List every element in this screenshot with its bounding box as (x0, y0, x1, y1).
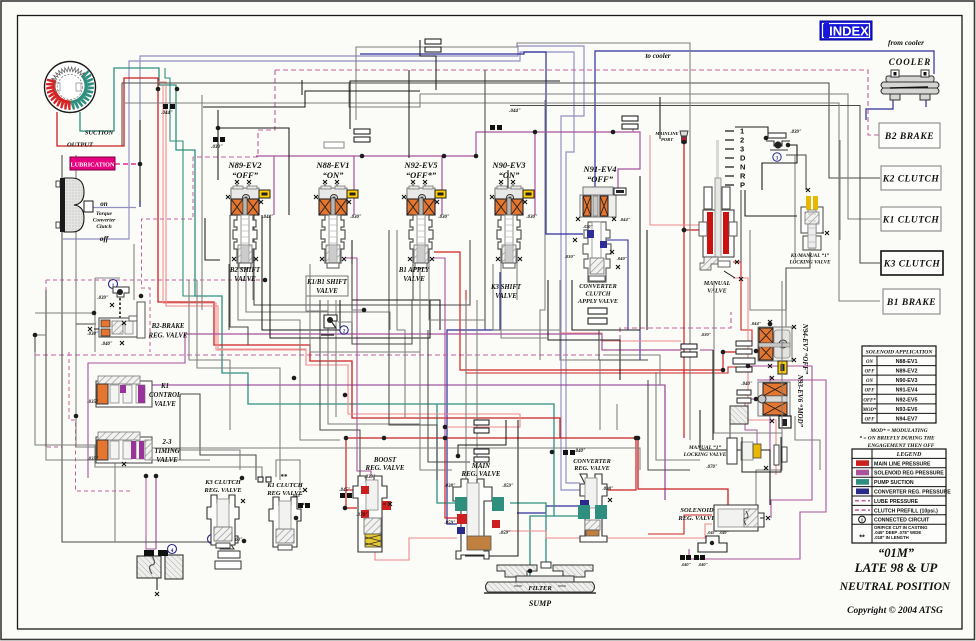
svg-text:REG. VALVE: REG. VALVE (461, 471, 501, 478)
svg-text:.044": .044" (161, 111, 173, 116)
connector (347, 190, 358, 198)
wire conv reg vertical (447, 272, 500, 430)
svg-text:CONVERTER REG. PRESSURE: CONVERTER REG. PRESSURE (874, 490, 951, 496)
node (634, 436, 639, 441)
wire black mesh 13 (712, 350, 714, 440)
box K3 CLUTCH (881, 251, 943, 275)
node (754, 349, 759, 354)
wire conv reg to main valve (447, 430, 457, 524)
svg-text:N89-EV2: N89-EV2 (896, 369, 918, 375)
svg-text:SOLENOID REG PRESSURE: SOLENOID REG PRESSURE (874, 471, 944, 477)
wire conv reg bottom (517, 506, 578, 513)
svg-text:NEUTRAL POSITION: NEUTRAL POSITION (839, 581, 951, 593)
node (360, 154, 365, 159)
svg-text:SOLENOID: SOLENOID (680, 507, 714, 514)
svg-text:.030": .030" (211, 145, 223, 150)
svg-text:FILTER: FILTER (528, 585, 552, 592)
wire boost stub (346, 489, 357, 491)
node (263, 278, 268, 283)
wire suction to main reg (437, 404, 457, 503)
solenoid N89-EV2 (226, 160, 274, 268)
K1/manual 1 locking valve (801, 188, 829, 250)
wire mainline port to manual valve (684, 142, 704, 230)
node (382, 436, 387, 441)
solenoid N91-EV4 (565, 164, 631, 282)
svg-text:B1 APPLY: B1 APPLY (398, 267, 430, 274)
wire sol reg bus (256, 132, 640, 190)
solenoid reg valve (677, 505, 770, 535)
wire boost out (375, 538, 457, 560)
svg-text:B2 BRAKE: B2 BRAKE (884, 132, 934, 142)
manual 1 locking valve bottom (683, 438, 787, 470)
node (682, 228, 687, 233)
svg-text:LATE 98 & UP: LATE 98 & UP (854, 560, 939, 575)
wire gray mesh 16 (189, 280, 230, 430)
wire gray mesh 0 (122, 83, 880, 178)
wire to check 4b (146, 476, 156, 549)
wire mauve long mid (185, 334, 681, 350)
svg-text:MAINLINE: MAINLINE (654, 131, 678, 136)
svg-text:APPLY VALVE: APPLY VALVE (577, 298, 618, 305)
svg-text:* = ON BRIEFLY DURING THE: * = ON BRIEFLY DURING THE (859, 435, 935, 442)
wire black mesh 8 (548, 280, 620, 380)
wire salmon to N94 (560, 333, 681, 341)
svg-text:.039": .039" (97, 296, 108, 301)
wire salmon twin (158, 82, 520, 438)
node (139, 294, 144, 299)
wire lube staircase (193, 70, 275, 157)
wire mesh extra (516, 264, 518, 300)
svg-text:**: ** (281, 473, 289, 481)
node (362, 308, 367, 313)
svg-text:“OFF”: “OFF” (587, 174, 614, 184)
valve B2-BRAKE REG VALVE (88, 278, 145, 347)
solenoid N93-EV6 (741, 374, 804, 428)
svg-text:CLUTCH: CLUTCH (585, 291, 610, 298)
svg-text:MAIN LINE PRESSURE: MAIN LINE PRESSURE (874, 461, 931, 467)
node (242, 539, 247, 544)
svg-text:“OFF”: “OFF” (232, 170, 259, 180)
wire gray mesh 34 (750, 230, 786, 360)
node (768, 322, 773, 327)
wire N88 down (345, 258, 371, 477)
rect pairs above main reg valve (474, 420, 489, 425)
wire stub N90 (534, 132, 536, 215)
wire sol reg red out (648, 515, 712, 534)
wire mesh extra (729, 424, 731, 438)
svg-text:.039": .039" (790, 130, 801, 135)
svg-text:CLUTCH PREFILL (10psi.): CLUTCH PREFILL (10psi.) (874, 508, 938, 514)
wire black mesh 17 (408, 70, 410, 158)
check valve item 3b (208, 535, 247, 570)
svg-text:OFF: OFF (865, 389, 876, 394)
svg-text:K1: K1 (160, 383, 169, 390)
box B2 BRAKE (879, 123, 940, 148)
wire nav branch (605, 240, 640, 360)
main reg valve (444, 463, 513, 559)
svg-text:**: ** (859, 535, 865, 542)
wire mesh extra (493, 264, 560, 330)
wire black mesh 9 (572, 280, 640, 330)
node (343, 393, 348, 398)
svg-text:.044": .044" (262, 215, 273, 220)
svg-text:LEGEND: LEGEND (896, 452, 922, 458)
orifice rect pair N94 (681, 344, 697, 349)
node (138, 162, 143, 167)
wire locking valve down (786, 252, 810, 366)
wire mesh extra (276, 460, 300, 490)
wire mauve stub N94 (700, 349, 713, 351)
wire gray mesh 41 (839, 140, 841, 240)
wire black mesh 3 (270, 215, 430, 338)
wire gray mesh 14 (246, 215, 390, 330)
wire gray mesh 38 (299, 355, 301, 430)
valve K1 (96, 376, 152, 407)
svg-text:N93-EV6: N93-EV6 (896, 407, 918, 413)
wire lube from lubrication box (115, 163, 140, 165)
wire suction from main reg right (510, 503, 546, 562)
orifice rects 625 (622, 116, 638, 121)
wire gray mesh 40 (46, 447, 210, 460)
wire gray mesh 20 (335, 300, 337, 417)
svg-text:VALVE: VALVE (154, 401, 176, 408)
valve K3 CLUTCH REG. VALVE (207, 495, 239, 548)
svg-text:.070": .070" (706, 465, 717, 470)
svg-text:.020": .020" (583, 224, 593, 229)
svg-text:.040": .040" (681, 562, 692, 567)
wire mesh extra (252, 264, 254, 300)
svg-text:PORT: PORT (661, 137, 673, 142)
node (636, 436, 641, 441)
svg-text:N: N (740, 163, 745, 172)
wire prefill 2 (46, 279, 265, 281)
wire to N93 down (769, 376, 771, 505)
node (294, 516, 299, 521)
svg-text:.045": .045" (339, 488, 350, 493)
svg-text:.038": .038" (444, 484, 455, 489)
wire gray mesh 11 (133, 244, 135, 300)
wire black mesh 6 (458, 420, 506, 456)
wire stub N88 (353, 156, 355, 215)
svg-text:OFF: OFF (865, 370, 876, 375)
svg-text:VALVE: VALVE (234, 276, 256, 283)
wire item2 out (338, 310, 364, 322)
node (74, 414, 79, 419)
node (442, 154, 447, 159)
svg-text:Torque: Torque (96, 211, 113, 217)
svg-text:LOCKING VALVE: LOCKING VALVE (683, 452, 727, 458)
svg-text:“01M”: “01M” (878, 546, 915, 560)
svg-text:N91-EV4: N91-EV4 (582, 164, 616, 174)
wire black mesh 2 (262, 215, 340, 330)
wire suction filter link (530, 516, 554, 583)
svg-text:.044": .044" (620, 217, 631, 222)
accumulator rects (588, 308, 607, 314)
wire salmon twin2 (163, 85, 306, 350)
svg-text:.040": .040" (741, 382, 752, 387)
wire mesh extra (210, 467, 262, 477)
wire mesh extra (115, 448, 640, 470)
solenoid N90-EV3 (490, 160, 538, 268)
solenoid N88-EV1 (314, 160, 362, 268)
svg-text:.030": .030" (438, 215, 449, 220)
node (721, 368, 726, 373)
node (240, 476, 245, 481)
svg-text:REG. VALVE: REG. VALVE (573, 465, 609, 472)
K1/B1 label box (306, 276, 348, 296)
svg-text:on: on (100, 200, 108, 208)
node (175, 87, 180, 92)
node (216, 126, 221, 131)
wire to cooler line (595, 51, 934, 190)
node (611, 130, 616, 135)
wire gray mesh 12 (230, 215, 248, 345)
node (292, 376, 297, 381)
svg-text:TIMING: TIMING (154, 448, 179, 455)
svg-text:4: 4 (171, 548, 174, 554)
wire manual valve feed down (683, 230, 685, 438)
wire suction twin (165, 68, 195, 296)
wire gray mesh 27 (484, 70, 486, 330)
svg-text:CONVERTER: CONVERTER (579, 283, 616, 290)
svg-text:.044": .044" (509, 109, 521, 114)
wire main out right (505, 524, 712, 538)
wire gray mesh 17 (197, 280, 280, 480)
small rect pairs top (324, 142, 344, 148)
wire black mesh 7 (507, 170, 509, 215)
wire manual to right (733, 278, 776, 475)
wire salmon N91 to manual (650, 135, 699, 225)
wire gray mesh 23 (420, 330, 452, 470)
svg-text:.040": .040" (101, 342, 112, 347)
svg-text:MOD* = MODULATING: MOD* = MODULATING (869, 427, 927, 434)
wire purple long mid (146, 385, 665, 500)
wire to locking valve (745, 190, 797, 216)
svg-text:SOLENOID APPLICATION: SOLENOID APPLICATION (866, 350, 934, 356)
wire black mesh 0 (218, 110, 289, 215)
wire black mesh 16 (350, 81, 560, 129)
node (92, 311, 97, 316)
wire enclosure locking valve (742, 437, 781, 472)
orifice (298, 503, 310, 508)
wire black mesh 19 (420, 40, 436, 90)
wire N94 stub (466, 290, 737, 373)
wire to N94 area (434, 252, 737, 370)
valve 2-3 (96, 432, 152, 463)
wire gray mesh 5 (356, 43, 690, 120)
wire black mesh 14 (205, 218, 220, 260)
svg-text:K1 CLUTCH: K1 CLUTCH (266, 482, 304, 489)
wire gray mesh 28 (540, 100, 545, 360)
svg-text:.045": .045" (292, 493, 303, 498)
cooler (881, 57, 939, 100)
svg-text:REG. VALVE: REG. VALVE (148, 333, 188, 340)
node (710, 541, 714, 545)
wire mesh extra (76, 323, 96, 325)
wire suction main (80, 68, 578, 516)
pump gear (45, 62, 96, 113)
svg-text:REG. VALVE: REG. VALVE (365, 465, 405, 472)
wire black mesh 20 (659, 97, 661, 139)
wire black mesh 12 (700, 410, 770, 505)
solenoid N94-EV7 (751, 320, 809, 375)
connector (435, 190, 446, 198)
wire N93 mauve down (689, 380, 826, 559)
svg-text:OUTPUT: OUTPUT (67, 142, 94, 149)
svg-text:B2-BRAKE: B2-BRAKE (151, 323, 185, 330)
wire N94 mauve down (747, 366, 812, 518)
svg-text:“ON”: “ON” (323, 170, 345, 180)
wire gray mesh 37 (869, 345, 871, 404)
svg-text:CONVERTER: CONVERTER (573, 458, 610, 465)
svg-text:CONNECTED CIRCUIT: CONNECTED CIRCUIT (874, 518, 930, 524)
wire item3 out (762, 145, 797, 190)
svg-text:B2 SHIFT: B2 SHIFT (229, 267, 261, 274)
solenoid application table (862, 346, 936, 423)
svg-text:.035": .035" (87, 400, 98, 405)
box B1 BRAKE (883, 289, 940, 314)
svg-text:1: 1 (740, 127, 744, 136)
wire main line bus (346, 438, 728, 507)
svg-text:Converter: Converter (93, 218, 116, 224)
node (144, 474, 149, 479)
wire mesh extra (35, 312, 94, 314)
svg-text:N88-EV1: N88-EV1 (315, 160, 349, 170)
svg-text:from cooler: from cooler (888, 38, 924, 47)
wire gray mesh 24 (428, 330, 470, 462)
wire gray mesh 3 (510, 106, 880, 264)
wire cooler left pipe down (866, 100, 893, 120)
svg-text:.018" IN LENGTH: .018" IN LENGTH (874, 535, 909, 540)
wire gray mesh 19 (328, 300, 420, 424)
svg-text:OFF*: OFF* (863, 398, 876, 403)
wire main line from pump (57, 78, 560, 438)
svg-text:K3 CLUTCH: K3 CLUTCH (883, 260, 941, 270)
wire TCC navy tip (139, 202, 141, 207)
wire manual out (733, 262, 752, 341)
node (746, 364, 751, 369)
wire mesh extra (605, 355, 660, 385)
wire gray mesh 22 (397, 230, 405, 418)
wire black mesh 4 (352, 240, 440, 330)
wire orifice stub (632, 127, 634, 132)
svg-text:CONTROL: CONTROL (149, 392, 181, 399)
wire mesh extra (168, 450, 240, 470)
svg-text:.040": .040" (574, 449, 585, 454)
wire mesh extra (228, 264, 230, 330)
svg-text:LOCKING VALVE: LOCKING VALVE (788, 260, 831, 266)
node (154, 474, 159, 479)
wire mesh extra (179, 394, 181, 460)
wire to item2 (306, 296, 328, 315)
connector bracket below sol reg (698, 536, 727, 552)
svg-text:2: 2 (740, 136, 744, 145)
svg-text:.044": .044" (751, 321, 762, 326)
wire gray mesh 7 (76, 155, 115, 542)
wire black mesh 18 (301, 80, 303, 95)
svg-text:N89-EV2: N89-EV2 (227, 160, 262, 170)
wire gray mesh 9 (45, 290, 47, 447)
node (533, 130, 538, 135)
torque converter clutch (56, 178, 93, 232)
svg-text:.098": .098" (602, 487, 613, 492)
svg-text:VALVE: VALVE (707, 288, 727, 295)
wire gray mesh 6 (62, 155, 212, 542)
wire gray mesh 25 (465, 300, 467, 490)
wire mesh extra (795, 416, 820, 470)
node (343, 506, 348, 511)
wire mesh extra (35, 334, 46, 336)
node (528, 569, 533, 574)
wire gray mesh 10 (94, 300, 96, 352)
svg-text:REG. VALVE: REG. VALVE (203, 487, 242, 494)
svg-text:.030": .030" (701, 332, 712, 337)
wire mesh extra (412, 264, 414, 300)
svg-text:ON: ON (866, 360, 873, 365)
wire gray mesh 33 (740, 190, 742, 262)
svg-text:K1/MANUAL “1”: K1/MANUAL “1” (790, 253, 830, 259)
box K1 CLUTCH (881, 207, 941, 231)
wire mesh extra (180, 394, 256, 480)
node (344, 436, 349, 441)
wire gray mesh 29 (560, 280, 600, 430)
svg-text:K1/B1 SHIFT: K1/B1 SHIFT (306, 279, 348, 286)
wire enclosure N94 area (714, 281, 782, 433)
svg-text:to cooler: to cooler (645, 52, 670, 60)
boost reg valve (339, 457, 404, 552)
svg-text:LUBRICATION: LUBRICATION (71, 162, 115, 169)
wire prefill 5 (69, 352, 130, 491)
lubrication label box (70, 157, 115, 170)
svg-text:MANUAL “1”: MANUAL “1” (688, 445, 722, 451)
svg-text:N91-EV4: N91-EV4 (896, 388, 918, 394)
box K2 CLUTCH (881, 166, 941, 190)
wire gray mesh 36 (786, 155, 806, 190)
wire stub N89 (273, 156, 275, 215)
wire gray mesh 31 (656, 372, 700, 460)
svg-text:N93-EV6 “MOD”: N93-EV6 “MOD” (796, 374, 804, 428)
wire to conv reg valve (608, 438, 636, 490)
svg-text:.030": .030" (526, 215, 537, 220)
svg-text:K2 CLUTCH: K2 CLUTCH (882, 175, 940, 185)
wire prefill 1 (142, 157, 194, 352)
svg-text:MANUAL: MANUAL (703, 280, 731, 287)
svg-text:VALVE: VALVE (495, 293, 517, 300)
svg-text:Copyright © 2004 ATSG: Copyright © 2004 ATSG (847, 605, 943, 616)
svg-text:N94-EV7 “OFF”: N94-EV7 “OFF” (801, 323, 809, 375)
wire stub N92 (441, 156, 443, 215)
node (682, 140, 687, 145)
wire prefill 3 (46, 280, 62, 447)
svg-text:D: D (740, 154, 746, 163)
svg-text:INDEX: INDEX (829, 24, 869, 39)
wire mesh extra (756, 430, 782, 505)
orifice .030" (211, 137, 225, 150)
orifice (340, 493, 352, 498)
wire black mesh 1 (217, 128, 219, 180)
wire gray mesh 39 (34, 335, 36, 352)
svg-text:N92-EV5: N92-EV5 (403, 160, 438, 170)
orifice .044" (490, 109, 521, 130)
svg-text:N90-EV3: N90-EV3 (491, 160, 526, 170)
wire mesh extra (310, 264, 420, 352)
wire mauve left loop (88, 334, 185, 478)
wire gray mesh 35 (794, 155, 796, 260)
wire TCC off line (63, 52, 580, 483)
wire mesh extra (616, 404, 618, 430)
wire black mesh 10 (639, 176, 641, 330)
wire mesh extra (689, 103, 691, 350)
